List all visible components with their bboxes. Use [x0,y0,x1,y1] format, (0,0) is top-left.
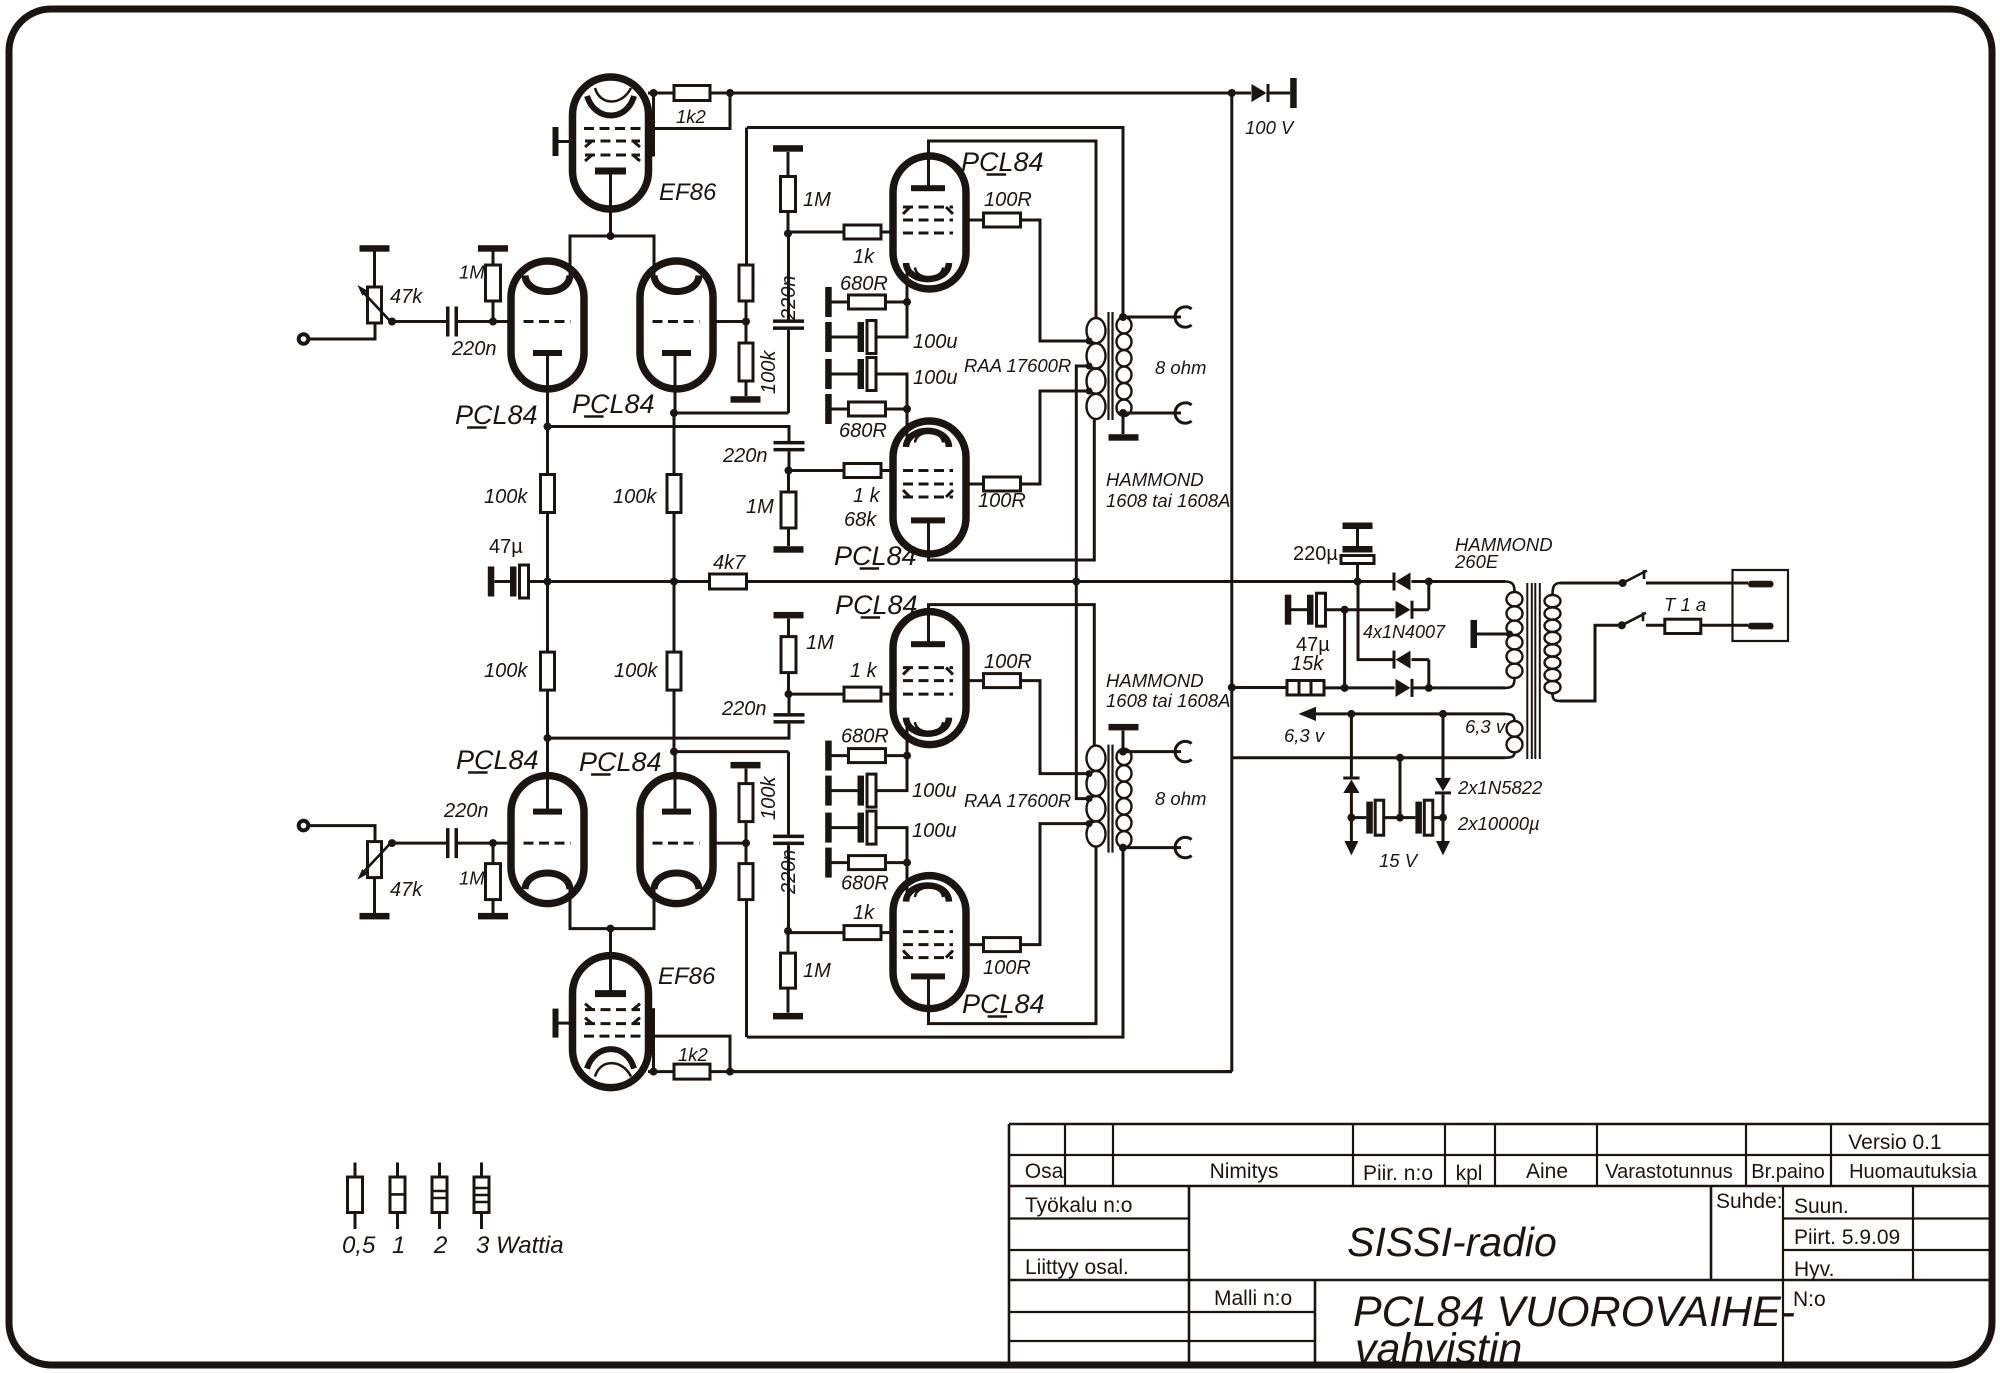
wire pot wiper to coupling cap (upper channel) [388,318,396,326]
fuse T1a [1646,624,1748,627]
resistor 1M grid leak (lower channel) [492,843,495,864]
svg-text:4x1N4007: 4x1N4007 [1363,622,1446,642]
resistor 100k divider right (lower channel) [673,690,676,752]
svg-text:100k: 100k [484,660,528,682]
mains switch pole 2 [1618,621,1626,629]
power transformer HAMMOND 260E LV winding [1505,582,1515,593]
diode D2 1N4007 [1345,608,1395,611]
output transformer RAA 17600R primary (upper channel) [1087,318,1106,343]
wire EF86 g3 row to 1k2 right node (lower channel) [648,1036,730,1072]
svg-text:Piir. n:o: Piir. n:o [1363,1162,1433,1185]
svg-text:HAMMOND: HAMMOND [1106,469,1204,490]
svg-text:SISSI-radio: SISSI-radio [1347,1219,1557,1265]
svg-text:220n: 220n [721,698,767,720]
svg-text:PCL84: PCL84 [835,590,918,620]
svg-text:220µ: 220µ [1293,543,1338,565]
wire lower channel B+ rail [730,1070,1232,1073]
capacitor 220n phase coupling B (lower channel) [774,713,805,717]
wire mains neutral return [1560,625,1622,701]
svg-text:68k: 68k [844,509,877,531]
svg-text:100u: 100u [912,820,957,842]
svg-text:100u: 100u [913,367,958,389]
capacitor 100u cathode bypass a (upper channel) [825,322,832,352]
svg-text:3 Wattia: 3 Wattia [476,1232,564,1259]
capacitor 220n phase coupling A (lower channel) [787,845,790,931]
ground secondary (upper channel) [1122,413,1125,434]
svg-text:Br.paino: Br.paino [1751,1161,1824,1183]
wire triode anodes to EF86 cathode (Y junction) (lower channel) [570,886,654,929]
power transformer heater winding 6.3V [1505,714,1515,721]
svg-text:1 k: 1 k [850,660,878,682]
legend resistor 3W [480,1163,483,1178]
wire V1b cathode rail (lower channel) [670,748,678,756]
wire V1a cathode rail (lower channel) [544,734,552,742]
svg-text:100k: 100k [484,486,528,508]
pentode V2a PCL84 output (upper channel) [893,156,966,289]
svg-text:Liittyy osal.: Liittyy osal. [1025,1256,1129,1279]
triode V1b PCL84 (lower channel) [640,776,713,904]
terminal 100V [1290,78,1297,108]
center tap to chassis [1506,631,1513,638]
resistor 1k grid stopper (lower channel) [788,931,844,934]
ground (upper channel) [731,396,761,403]
svg-text:1M: 1M [803,189,831,211]
wire pentode a anode to output transformer (upper channel) [929,141,1097,318]
resistor 15k bleeder [1228,684,1236,692]
resistor 680R cathode bias b (upper channel) [825,394,832,424]
svg-text:Piirt. 5.9.09: Piirt. 5.9.09 [1794,1226,1900,1249]
diode D4 1N4007 [1345,686,1395,689]
svg-text:15 V: 15 V [1379,850,1419,871]
legend resistor 0.5W [354,1163,357,1178]
svg-text:220n: 220n [778,850,800,896]
potentiometer 47k (upper channel) [368,287,382,323]
svg-text:4k7: 4k7 [713,552,746,574]
pentode V2b PCL84 output (upper channel) [893,421,966,554]
resistor 1k2 EF86 anode (upper channel) [648,92,674,95]
svg-text:1k: 1k [853,902,875,924]
svg-text:1k2: 1k2 [678,1044,709,1065]
resistor 1M to ground lower (lower channel) [787,672,790,694]
resistor 1k2 EF86 anode (lower channel) [648,1070,674,1073]
pentode tube EF86 (lower channel) [573,956,649,1088]
svg-text:PCL84: PCL84 [834,541,917,571]
svg-text:1M: 1M [803,960,831,982]
resistor 100R screen feed b (upper channel) [966,483,984,486]
wire screen rail (lower channel) [747,848,1123,1038]
svg-text:PCL84: PCL84 [455,400,538,430]
svg-text:100k: 100k [758,350,780,394]
resistor 1k grid stopper lower (lower channel) [789,693,845,696]
capacitor 100u cathode bypass a (lower channel) [825,813,832,843]
pentode tube EF86 (upper channel) [573,77,649,209]
svg-text:2: 2 [433,1232,447,1259]
svg-text:Aine: Aine [1526,1160,1568,1183]
svg-text:100 V: 100 V [1245,117,1295,138]
wire input to volume pot (lower channel) [309,826,376,842]
resistor 1M to ground lower (upper channel) [787,471,790,493]
power transformer mains winding [1553,583,1561,595]
svg-text:PCL84: PCL84 [579,747,662,777]
svg-text:260E: 260E [1454,551,1499,572]
wire bridge mid leg [1343,610,1346,688]
svg-text:2x1N5822: 2x1N5822 [1457,777,1543,798]
svg-text:EF86: EF86 [659,179,717,206]
svg-text:680R: 680R [841,726,889,748]
resistor 100R screen feed a (lower channel) [966,943,984,946]
wire pentode a anode to output transformer (lower channel) [929,847,1097,1024]
wire input to volume pot (upper channel) [309,323,376,339]
svg-text:100k: 100k [758,776,780,820]
svg-text:Työkalu n:o: Työkalu n:o [1025,1194,1132,1217]
svg-text:Huomautuksia: Huomautuksia [1849,1161,1978,1183]
resistor 100k divider left (lower channel) [546,690,549,738]
svg-text:8 ohm: 8 ohm [1155,357,1206,378]
input jack J2 [299,821,309,831]
wire B+ vertical bus [1230,93,1233,1072]
svg-text:1k2: 1k2 [676,106,707,127]
capacitor 220u reservoir [1343,523,1373,530]
capacitor 220n input coupling (lower channel) [446,828,450,858]
svg-text:1M: 1M [459,868,485,889]
svg-text:1k: 1k [853,246,875,268]
wire screen rail (upper channel) [747,128,1123,318]
output transformer secondary (lower channel) [1117,749,1132,765]
output transformer core (lower channel) [1109,745,1113,853]
svg-text:680R: 680R [841,873,889,895]
wire mains live [1560,582,1623,585]
ground (upper channel) [774,546,804,553]
potentiometer 47k (lower channel) [368,842,382,878]
svg-text:1 k: 1 k [853,485,881,507]
svg-text:Hyv.: Hyv. [1794,1258,1834,1281]
svg-text:47k: 47k [390,286,423,308]
svg-text:Malli n:o: Malli n:o [1214,1287,1292,1310]
svg-text:RAA 17600R: RAA 17600R [964,790,1071,811]
triode V1a PCL84 (upper channel) [511,261,584,389]
resistor 100k anode load V1a (upper channel) [745,128,748,266]
diode D6 1N5822 [1442,714,1445,778]
resistor 680R cathode bias b (lower channel) [825,741,832,771]
ground (lower channel) [774,612,804,619]
svg-text:100u: 100u [912,780,957,802]
svg-text:1608 tai 1608A: 1608 tai 1608A [1106,690,1230,711]
svg-text:6,3 v: 6,3 v [1465,716,1507,737]
svg-text:47k: 47k [390,879,423,901]
svg-text:100R: 100R [983,957,1031,979]
capacitor 47u mid [488,567,495,597]
resistor 1M pentode grid bias (upper channel) [773,145,803,152]
wire B+ mid rail [529,580,711,583]
svg-text:RAA 17600R: RAA 17600R [964,355,1071,376]
svg-text:0,5: 0,5 [342,1232,376,1259]
svg-text:680R: 680R [840,273,888,295]
capacitor 10000u B [1400,816,1415,819]
legend resistor 2W [438,1163,441,1178]
svg-text:1M: 1M [459,262,485,283]
svg-text:100k: 100k [613,486,657,508]
resistor 1M pentode grid bias (lower channel) [773,1013,803,1020]
capacitor 220n phase coupling B (upper channel) [774,441,805,445]
svg-text:PCL84: PCL84 [961,147,1044,177]
wire pentode b anode to output transformer (upper channel) [929,419,1095,560]
capacitor 100u cathode bypass b (lower channel) [825,776,832,806]
output arrow 15V left [1350,818,1353,841]
mains plug [1733,570,1789,641]
capacitor 220n input coupling (upper channel) [446,307,450,337]
svg-text:Varastotunnus: Varastotunnus [1605,1161,1733,1183]
diode D5 1N5822 [1350,714,1353,777]
wire bridge right upper [1427,582,1430,610]
wire V1a cathode rail (upper channel) [544,423,552,431]
svg-text:HAMMOND: HAMMOND [1106,670,1204,691]
svg-text:47µ: 47µ [489,536,523,558]
wire B+ tap to supply rail (upper channel) [1076,366,1089,582]
wire B+ tap to supply rail (lower channel) [1076,583,1089,799]
wire V1b cathode rail (upper channel) [670,409,678,417]
resistor 680R cathode bias a (upper channel) [825,287,832,317]
svg-text:EF86: EF86 [658,963,716,990]
wire EF86 g1 row to anode node (upper channel) [648,93,654,155]
resistor 100R screen feed b (lower channel) [966,679,984,682]
svg-text:15k: 15k [1291,653,1324,675]
output transformer secondary (upper channel) [1117,317,1132,333]
svg-text:100u: 100u [913,331,958,353]
svg-text:Versio 0.1: Versio 0.1 [1848,1131,1941,1154]
output transformer RAA 17600R primary (lower channel) [1087,746,1106,771]
resistor 4k7 [710,574,747,589]
output transformer taps (lower channel) [1086,820,1093,827]
ground secondary (lower channel) [1122,731,1125,752]
diode D1 1N4007 [1358,580,1395,583]
svg-text:N:o: N:o [1793,1288,1826,1311]
svg-text:Nimitys: Nimitys [1210,1160,1279,1183]
capacitor 47u supply [1285,595,1292,625]
output transformer taps (upper channel) [1086,338,1093,345]
svg-text:2x10000µ: 2x10000µ [1457,813,1540,834]
svg-text:kpl: kpl [1456,1162,1483,1185]
svg-text:1608 tai 1608A: 1608 tai 1608A [1106,490,1230,511]
wire B+ rail from 1k2 to supply (lower channel) [730,1070,1232,1073]
svg-text:8 ohm: 8 ohm [1155,788,1206,809]
resistor 100k to ground (lower channel) [739,784,753,822]
svg-text:220n: 220n [722,445,768,467]
wire B+ rail from 1k2 to supply (upper channel) [730,92,1232,95]
svg-text:680R: 680R [839,420,887,442]
heater return rail [1232,756,1505,759]
svg-text:1M: 1M [746,496,774,518]
svg-text:100k: 100k [614,660,658,682]
svg-text:Osa: Osa [1025,1160,1064,1183]
resistor 1M grid leak (upper channel) [492,301,495,322]
resistor 100k divider left (upper channel) [546,427,549,475]
resistor 1k grid stopper lower (upper channel) [789,469,845,472]
pentode V2a PCL84 output (lower channel) [893,876,966,1009]
capacitor 10000u A [1351,816,1366,819]
wire pot wiper to coupling cap (lower channel) [388,839,396,847]
svg-text:100R: 100R [984,189,1032,211]
speaker terminal lower (lower channel) [1119,748,1127,756]
speaker terminal upper (lower channel) [1119,844,1127,852]
wire bridge right lower [1427,660,1430,688]
triode V1a PCL84 (lower channel) [511,776,584,904]
wire pentode b anode to output transformer (lower channel) [929,605,1095,746]
title block table [1009,1123,1992,1126]
diode D3 1N4007 [1396,651,1411,669]
resistor 1k grid stopper (upper channel) [788,231,844,234]
triode V1b PCL84 (upper channel) [640,261,713,389]
heater rail arrow 6.3V [1299,707,1317,721]
wire EF86 g1 row to anode node (lower channel) [648,1010,654,1072]
wire EF86 g3 row to 1k2 right node (upper channel) [648,93,730,129]
legend resistor 1W [396,1163,399,1178]
diode 100V supply [1228,89,1236,97]
svg-text:220n: 220n [451,338,497,360]
wire triode anodes to EF86 cathode (Y junction) (upper channel) [570,236,654,279]
svg-text:Suhde:: Suhde: [1716,1190,1783,1213]
wire rectifier to transformer winding [1429,686,1505,689]
wire heater return to cap midpoint [1399,758,1402,818]
svg-text:220n: 220n [778,276,800,322]
svg-text:100R: 100R [984,651,1032,673]
power transformer core [1527,583,1540,759]
wire V1b grid to divider (upper channel) [713,320,746,323]
input jack J1 [299,334,309,344]
svg-text:PCL84: PCL84 [456,745,539,775]
pentode V2b PCL84 output (lower channel) [893,612,966,745]
resistor 100k divider right (upper channel) [673,413,676,475]
wire cap to grid node (lower channel) [457,842,511,845]
output arrow 15V right [1442,818,1445,841]
capacitor 220n phase coupling A (upper channel) [787,234,790,320]
resistor 100R screen feed a (upper channel) [966,219,984,222]
resistor 100k anode load V1a (lower channel) [745,900,748,1038]
wire cap to grid node (upper channel) [457,320,511,323]
output transformer core (upper channel) [1109,312,1113,420]
speaker terminal upper (upper channel) [1119,313,1127,321]
mains switch pole 1 [1619,579,1627,587]
svg-text:PCL84: PCL84 [572,389,655,419]
resistor 100k to ground (upper channel) [739,343,753,381]
wire bridge left leg [1358,582,1395,660]
wire V1b grid to divider (lower channel) [713,842,746,845]
svg-text:1M: 1M [806,632,834,654]
svg-text:100R: 100R [978,490,1026,512]
resistor 680R cathode bias a (lower channel) [825,848,832,878]
svg-text:6,3 v: 6,3 v [1284,725,1326,746]
svg-text:1: 1 [392,1232,405,1259]
svg-text:PCL84: PCL84 [962,989,1045,1019]
svg-text:vahvistin: vahvistin [1355,1325,1522,1373]
svg-text:220n: 220n [443,800,489,822]
svg-text:T 1 a: T 1 a [1664,594,1706,615]
speaker terminal lower (upper channel) [1119,409,1127,417]
capacitor 100u cathode bypass b (upper channel) [825,359,832,389]
svg-text:Suun.: Suun. [1794,1195,1849,1218]
ground (lower channel) [731,762,761,769]
